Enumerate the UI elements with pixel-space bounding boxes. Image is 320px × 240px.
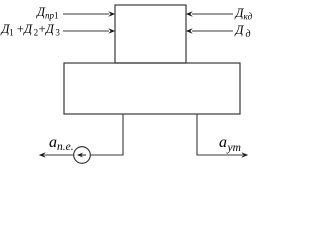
flow sensor circle: [74, 147, 91, 164]
wire output right leg: [197, 114, 243, 155]
wire arrow input Дпр1: [63, 13, 109, 15]
wire arrow input Дкд: [192, 13, 233, 15]
svg-text:аут: аут: [219, 134, 241, 154]
svg-text:Дкд: Дкд: [235, 6, 253, 22]
wire arrow input Дд: [192, 30, 233, 32]
wire arrow output а_п.е.: [44, 154, 74, 156]
svg-text:Дд: Дд: [235, 23, 251, 40]
wire arrow input Д1+Д2+Д3: [63, 30, 109, 32]
svg-text:ап.е.: ап.е.: [49, 134, 74, 153]
wire arrow output а_ут: [241, 152, 248, 158]
wire output left leg: [90, 114, 123, 155]
svg-text:Д1 +Д 2+Д 3: Д1 +Д 2+Д 3: [1, 22, 61, 38]
svg-text:Дпр1: Дпр1: [36, 5, 58, 21]
block lower (plant): [64, 63, 240, 114]
inner arrow of sensor: [80, 154, 86, 156]
block upper (controller): [115, 5, 186, 63]
